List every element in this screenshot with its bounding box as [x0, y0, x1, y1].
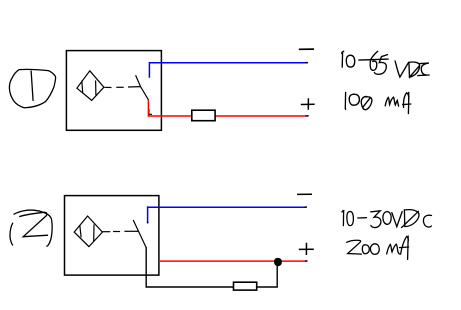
- text 200 mA (handwritten): [347, 236, 409, 259]
- wire red (plus supply, circuit 2): [159, 260, 306, 262]
- proximity sensor symbol (diamond) U2: [74, 216, 102, 247]
- wire black: switch output to load, circuit 2: [146, 247, 277, 287]
- minus terminal symbol, circuit 2: [297, 193, 312, 195]
- wire blue (minus supply, circuit 1): [149, 63, 305, 78]
- switch S2 blade: [133, 220, 146, 247]
- wire red (plus supply, circuit 1): [148, 100, 306, 116]
- plus terminal symbol, circuit 1: [301, 98, 315, 110]
- enclosure box U1: [66, 51, 161, 131]
- junction node (dot) on red wire: [275, 259, 282, 266]
- switch S1 blade: [136, 75, 149, 100]
- black tick at switch output corner: [149, 109, 152, 114]
- wire: diamond tail and dashed link, circuit 2: [102, 230, 138, 232]
- proximity sensor symbol (diamond) U1: [77, 71, 104, 101]
- resistor R1 (load): [192, 110, 215, 121]
- label (2): [10, 210, 52, 246]
- resistor R2 (load): [234, 282, 257, 290]
- black tip at blue wire end: [305, 62, 308, 64]
- enclosure box U2: [65, 196, 159, 276]
- label (1): [9, 69, 55, 107]
- wire: diamond tail and dashed link: [104, 86, 141, 89]
- wire blue (minus supply, circuit 2): [148, 206, 305, 223]
- black tip at red wire end: [306, 115, 309, 117]
- text 10-65 VDC (handwritten): [342, 51, 429, 77]
- text 10-30VDC (handwritten): [342, 210, 432, 228]
- black tip at blue wire vertical end, circuit 2: [147, 222, 149, 223]
- minus terminal symbol, circuit 1: [299, 48, 314, 50]
- black tip at red wire end, circuit 2: [305, 260, 308, 262]
- text 100 mA (handwritten): [345, 92, 411, 113]
- plus terminal symbol, circuit 2: [299, 243, 314, 255]
- black tip at blue wire right end, circuit 2: [305, 206, 308, 208]
